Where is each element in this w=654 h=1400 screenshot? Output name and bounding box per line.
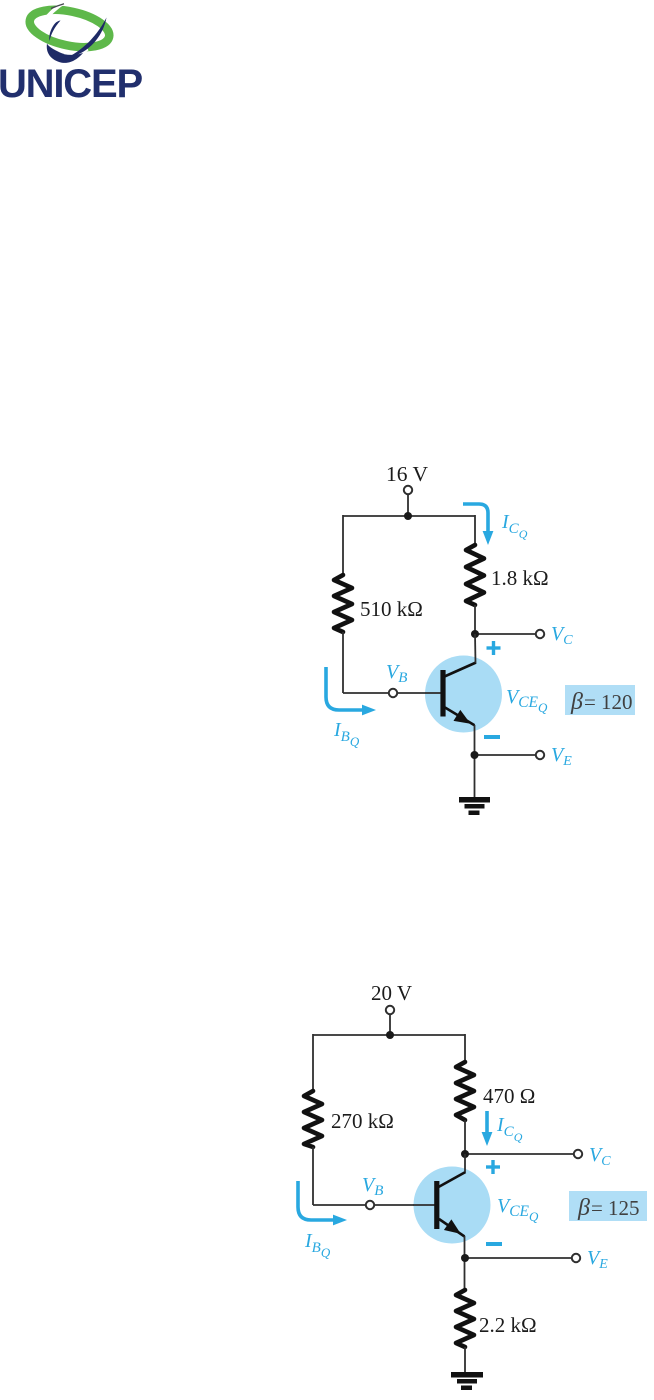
wire: V_C tap c2: [465, 1153, 574, 1155]
wire: collector lead c1: [474, 605, 476, 634]
transistor Q2 symbol: [413, 1172, 466, 1237]
svg-text:1.8 kΩ: 1.8 kΩ: [491, 566, 549, 590]
logo: UNICEP wordmark: [0, 62, 142, 106]
svg-text:VC: VC: [551, 623, 573, 648]
wire: base wire c1: [343, 692, 441, 694]
transistor Q1 highlight circle: [425, 656, 502, 733]
svg-text:UNICEP: UNICEP: [0, 62, 142, 106]
label 510 kOhm: [360, 597, 423, 621]
node: collector junction c1: [471, 630, 479, 638]
node: top rail junction c1: [404, 512, 412, 520]
label V_CEQ c1: [506, 686, 548, 715]
wire: top rail c2: [313, 1034, 465, 1036]
resistor 270 kOhm: [304, 1091, 322, 1147]
wire: emitter lead c1: [474, 725, 476, 797]
logo: navy long slash: [72, 18, 107, 57]
wire: base wire c2: [313, 1204, 434, 1206]
supply terminal c2 (open circle): [386, 1006, 394, 1014]
label V_C c2: [589, 1144, 611, 1169]
label V_C c1: [551, 623, 573, 648]
ground c1: [459, 797, 490, 815]
ground c2: [451, 1372, 483, 1390]
label 1.8 kOhm: [491, 566, 549, 590]
wire: right branch upper c2: [464, 1034, 466, 1063]
terminal V_E c1 (open circle): [536, 751, 544, 759]
arrow I_BQ c1 (curved cyan): [326, 667, 376, 715]
svg-text:β= 120: β= 120: [570, 689, 633, 715]
resistor 510 kOhm: [334, 575, 352, 632]
svg-text:20 V: 20 V: [371, 981, 412, 1005]
arrow I_BQ c2 (curved cyan): [298, 1181, 347, 1225]
svg-text:470 Ω: 470 Ω: [483, 1084, 535, 1108]
svg-text:VCEQ: VCEQ: [497, 1195, 539, 1224]
label I_CQ c1: [501, 511, 528, 541]
wire: emitter resistor bottom lead c2: [464, 1347, 466, 1373]
label 16 V: [386, 462, 428, 486]
wire: left branch lower c1: [342, 632, 344, 693]
wire: collector into transistor c2: [464, 1154, 466, 1172]
svg-text:VC: VC: [589, 1144, 611, 1169]
label 470 Ohm: [483, 1084, 535, 1108]
wire: V_E tap c2: [465, 1257, 572, 1259]
supply terminal c1 (open circle): [404, 486, 412, 494]
svg-text:VB: VB: [386, 661, 407, 686]
terminal V_E c2 (open circle): [572, 1254, 580, 1262]
terminal V_C c1 (open circle): [536, 630, 544, 638]
label I_CQ c2: [496, 1114, 523, 1144]
label V_B c1: [386, 661, 407, 686]
svg-text:β= 125: β= 125: [577, 1195, 640, 1221]
svg-text:ICQ: ICQ: [501, 511, 528, 541]
arrow I_CQ c2 (straight cyan): [482, 1111, 493, 1146]
wire: left branch upper c2: [312, 1034, 314, 1092]
logo: green orbit ellipse: [26, 3, 112, 53]
logo: navy swoosh hull: [47, 44, 86, 63]
node: top rail junction c2: [386, 1031, 394, 1039]
wire: collector into transistor c1: [474, 634, 477, 663]
label V_B c2: [362, 1174, 383, 1199]
node: collector junction c2: [461, 1150, 469, 1158]
wire: V_C tap c1: [475, 633, 536, 635]
minus sign c2: [486, 1242, 502, 1246]
label I_BQ c1: [333, 719, 360, 749]
wire: V_E tap c1: [474, 754, 536, 756]
beta box c1: [565, 685, 635, 715]
svg-text:2.2 kΩ: 2.2 kΩ: [479, 1313, 537, 1337]
svg-text:VE: VE: [551, 744, 572, 769]
svg-text:VE: VE: [587, 1247, 608, 1272]
wire: left branch lower c2: [312, 1147, 314, 1205]
label I_BQ c2: [304, 1230, 331, 1260]
label 2.2 kOhm: [479, 1313, 537, 1337]
svg-text:270 kΩ: 270 kΩ: [331, 1109, 394, 1133]
terminal V_B c1 (open circle): [389, 689, 397, 697]
wire: top rail c1: [343, 515, 475, 517]
resistor 470 Ohm: [456, 1062, 474, 1120]
svg-text:510 kΩ: 510 kΩ: [360, 597, 423, 621]
wire: supply stub c1: [407, 492, 409, 516]
wire: emitter lead c2: [464, 1236, 466, 1290]
wire: right branch upper c1: [474, 515, 476, 546]
transistor Q2 highlight circle: [414, 1167, 491, 1244]
wire: left branch upper c1: [342, 515, 344, 576]
svg-text:IBQ: IBQ: [333, 719, 360, 749]
label V_E c1: [551, 744, 572, 769]
resistor 2.2 kOhm: [456, 1290, 474, 1347]
logo: white sliver between hull and slash: [64, 50, 88, 54]
logo: thin dark line in notch: [51, 4, 64, 9]
node: emitter junction c1: [471, 751, 479, 759]
terminal V_B c2 (open circle): [366, 1201, 374, 1209]
logo: white notch slash across ring top: [47, 0, 72, 17]
plus sign c2: [486, 1160, 500, 1174]
svg-text:16 V: 16 V: [386, 462, 428, 486]
label V_E c2: [587, 1247, 608, 1272]
logo: navy small sliver: [49, 21, 60, 42]
resistor 1.8 kOhm: [466, 545, 484, 605]
label 20 V: [371, 981, 412, 1005]
label V_CEQ c2: [497, 1195, 539, 1224]
svg-text:ICQ: ICQ: [496, 1114, 523, 1144]
plus sign c1: [487, 641, 501, 655]
wire: collector lead c2: [464, 1120, 466, 1154]
svg-text:IBQ: IBQ: [304, 1230, 331, 1260]
transistor Q1 symbol: [425, 663, 476, 726]
svg-text:VB: VB: [362, 1174, 383, 1199]
label 270 kOhm: [331, 1109, 394, 1133]
arrow I_CQ c1 (curved cyan): [463, 504, 493, 545]
node: emitter junction c2: [461, 1254, 469, 1262]
wire: supply stub c2: [389, 1012, 391, 1035]
svg-text:VCEQ: VCEQ: [506, 686, 548, 715]
minus sign c1: [484, 735, 500, 739]
terminal V_C c2 (open circle): [574, 1150, 582, 1158]
beta box c2: [569, 1191, 647, 1221]
